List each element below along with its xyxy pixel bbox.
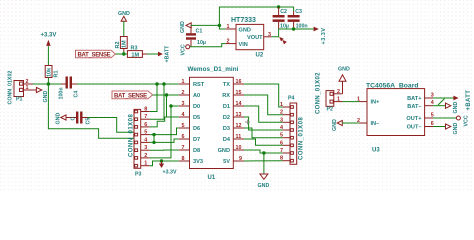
wire P3 pin6 to D5 — [150, 117, 179, 127]
wire P3 pin4 to D7 — [150, 139, 179, 142]
svg-text:9: 9 — [239, 156, 242, 162]
pin 7 P3 — [141, 114, 150, 120]
capacitor C4 — [59, 77, 80, 100]
svg-text:C1: C1 — [196, 29, 203, 35]
node junction P3 pin5 — [152, 133, 155, 136]
pin 1 U1 — [179, 79, 190, 85]
svg-text:CONN_01X08: CONN_01X08 — [299, 116, 305, 160]
svg-text:1: 1 — [144, 161, 147, 167]
svg-text:1: 1 — [337, 97, 340, 103]
wire flag to node — [116, 53, 124, 55]
capacitor C5 — [71, 112, 92, 125]
pin 5 U1 — [179, 123, 190, 129]
svg-text:1: 1 — [182, 79, 185, 85]
svg-text:C: C — [71, 117, 77, 121]
wire node down from P1 net — [48, 84, 134, 138]
svg-text:16: 16 — [236, 79, 242, 85]
node junction RST riser b — [162, 82, 165, 85]
wire R2 to node — [123, 49, 125, 52]
pin 13 U1 — [233, 112, 244, 118]
svg-text:CONN_01X02: CONN_01X02 — [8, 71, 14, 105]
node junction D0 — [169, 104, 172, 107]
node junction under R1 — [47, 82, 50, 85]
node junction GND tap — [262, 151, 265, 154]
pin 2 P4 — [280, 110, 290, 116]
pin 5 P4 — [280, 133, 290, 139]
svg-text:2: 2 — [182, 90, 185, 96]
pin 2 U1 — [179, 90, 190, 96]
wire OUT+ to VCC — [433, 117, 456, 119]
pin 10 U1 — [233, 145, 244, 151]
pin 6 U1 — [179, 134, 190, 140]
svg-text:8: 8 — [280, 156, 283, 162]
svg-text:U1: U1 — [208, 175, 216, 181]
svg-text:U3: U3 — [372, 148, 380, 154]
wire +3.3V to R1 — [47, 46, 49, 65]
ground symbol at OUT- — [446, 123, 459, 135]
wire P3 pin5 to D6 — [150, 128, 179, 135]
svg-text:1: 1 — [227, 24, 230, 30]
svg-text:IN–: IN– — [371, 121, 380, 127]
pin 6 U3 OUT- — [425, 121, 434, 127]
svg-text:2: 2 — [337, 89, 340, 95]
svg-text:Wemos_D1_mini: Wemos_D1_mini — [188, 66, 239, 73]
supply BATT arrow — [147, 45, 170, 63]
node junction P3 pin4 — [152, 141, 155, 144]
ground symbol at C1 — [180, 21, 191, 33]
svg-text:1M: 1M — [122, 40, 128, 48]
wire P2 pin1 to U3 IN+ — [343, 101, 360, 103]
svg-text:3: 3 — [182, 101, 185, 107]
ground symbol at U3 IN- — [332, 119, 343, 131]
svg-text:OUT+: OUT+ — [406, 116, 422, 122]
pin 6 P3 — [141, 122, 150, 128]
wire C2 top to C3 top — [279, 7, 294, 11]
svg-text:10: 10 — [236, 145, 242, 151]
capacitor C2 — [273, 7, 289, 30]
wire R1 to node — [47, 78, 49, 85]
svg-text:R3: R3 — [131, 46, 138, 52]
supply +3.3V (top-left) — [41, 33, 57, 46]
svg-text:C5: C5 — [86, 118, 92, 125]
svg-text:CONN_01X02: CONN_01X02 — [316, 72, 322, 114]
pin 16 U1 — [233, 79, 244, 85]
svg-text:GND: GND — [453, 102, 459, 114]
svg-text:1M: 1M — [131, 53, 139, 59]
pin 1 of P2 — [334, 97, 343, 103]
pin 3 P4 — [280, 117, 290, 123]
svg-text:GND: GND — [332, 119, 338, 131]
ground symbol above R2 — [118, 11, 130, 21]
wire BAT_SENSE to A0 — [153, 94, 179, 96]
svg-text:VCC: VCC — [463, 115, 469, 126]
connector P3 — [129, 109, 142, 177]
svg-text:4: 4 — [182, 112, 185, 118]
wire BAT- to GND — [433, 105, 446, 107]
supply +3.3V arrow (right of rail) — [314, 27, 327, 45]
svg-text:3: 3 — [268, 32, 271, 38]
pin 7 P4 — [280, 148, 290, 154]
svg-text:GND: GND — [43, 91, 49, 103]
svg-text:GND: GND — [258, 183, 270, 189]
svg-text:GND: GND — [180, 21, 186, 33]
wire diagonal BAT- tie — [438, 99, 445, 105]
svg-text:2: 2 — [144, 153, 147, 159]
wire U1 pin12 to P4 pin5 — [244, 128, 283, 138]
svg-text:C2: C2 — [280, 9, 287, 15]
svg-text:D7: D7 — [193, 137, 200, 143]
svg-text:6: 6 — [280, 140, 283, 146]
wire tie pin5-pin4 — [153, 135, 155, 143]
svg-text:7: 7 — [144, 114, 147, 120]
pin 2 of P2 — [334, 89, 343, 95]
pin 14 U1 — [233, 101, 244, 107]
svg-text:HT7333: HT7333 — [231, 17, 256, 24]
svg-text:GND: GND — [56, 113, 62, 125]
charger module U3 TC4056A_Board — [366, 82, 425, 153]
wire P3 pin3 to D8 — [150, 149, 179, 151]
pin 2 P3 — [141, 153, 150, 159]
svg-text:RX: RX — [222, 93, 230, 99]
resistor R1 — [45, 66, 59, 78]
wire A0 riser to D5 net — [166, 95, 168, 117]
pin 1 of U2 — [226, 24, 236, 30]
svg-text:A0: A0 — [193, 93, 200, 99]
pin 4 U1 — [179, 112, 190, 118]
capacitor C3 — [288, 9, 308, 30]
node junction C2 top — [277, 5, 280, 8]
resistor R3 — [124, 46, 147, 59]
svg-text:GND: GND — [338, 67, 350, 73]
svg-text:1: 1 — [280, 102, 283, 108]
pin 4 P4 — [280, 125, 290, 131]
svg-text:VOUT: VOUT — [247, 35, 263, 41]
svg-text:1: 1 — [26, 85, 29, 91]
connector P2 — [316, 72, 334, 114]
wire C5 to P3 — [88, 118, 135, 133]
node junction C3 bottom — [292, 27, 295, 30]
supply VCC at OUT+ — [456, 115, 469, 126]
connector P4 — [288, 96, 305, 165]
wire GND riser — [263, 153, 265, 174]
node junction RST riser a — [155, 82, 158, 85]
svg-text:RST: RST — [193, 82, 205, 88]
svg-text:5: 5 — [144, 130, 147, 136]
resistor R2 — [115, 37, 128, 49]
svg-text:OUT–: OUT– — [407, 125, 422, 131]
svg-text:GND: GND — [239, 27, 251, 33]
pin 2 U3 — [357, 118, 367, 124]
ground symbol at C5 — [56, 113, 77, 125]
svg-text:6: 6 — [144, 122, 147, 128]
svg-text:P1: P1 — [16, 97, 23, 103]
svg-text:P2: P2 — [327, 107, 334, 113]
wire U1 pin15 to P4 pin2 — [244, 95, 283, 115]
pin 2 of U2 — [226, 38, 236, 44]
voltage regulator U2 HT7333 — [231, 17, 264, 59]
svg-text:BAT_SENSE: BAT_SENSE — [78, 53, 111, 59]
svg-text:14: 14 — [236, 101, 242, 107]
wire U1 pin9 to P4 pin8 — [244, 160, 283, 162]
svg-text:5: 5 — [182, 123, 185, 129]
pin 8 P4 — [280, 156, 290, 162]
svg-text:8: 8 — [182, 156, 185, 162]
wire U1 pin11 to P4 pin6 — [244, 139, 283, 145]
svg-text:100n: 100n — [59, 87, 65, 99]
wire P3 pin7 to RST — [150, 84, 164, 119]
pin 5 P3 — [141, 130, 150, 136]
wire OUT- to GND — [433, 126, 446, 128]
svg-text:BAT_SENSE: BAT_SENSE — [114, 93, 147, 99]
svg-text:C3: C3 — [295, 9, 302, 15]
svg-text:10µ: 10µ — [197, 40, 206, 46]
pin 3 P3 — [141, 145, 150, 151]
svg-text:4: 4 — [144, 137, 147, 143]
svg-text:7: 7 — [182, 145, 185, 151]
svg-text:IN+: IN+ — [371, 100, 381, 106]
pin 1 P3 — [141, 161, 150, 167]
connector P1 — [8, 71, 24, 105]
svg-text:3: 3 — [280, 117, 283, 123]
wire rail elbow to U2 pin1 — [219, 25, 225, 29]
ground symbol at P1 pin1 — [33, 87, 49, 102]
wire P3 pin8 to RST — [150, 84, 157, 112]
pin 2 of P1 — [24, 79, 34, 85]
wire rail up and over to C2/C3 tops — [219, 7, 278, 25]
node junction R2/R3 — [122, 52, 125, 55]
node junction 3V3 — [160, 159, 163, 162]
origin cross marker — [245, 120, 250, 125]
svg-text:D5: D5 — [193, 115, 200, 121]
ground symbol at BAT- — [446, 102, 459, 114]
svg-text:+BATT: +BATT — [164, 45, 170, 63]
svg-text:4: 4 — [280, 125, 283, 131]
svg-text:+3.3V: +3.3V — [41, 33, 57, 39]
svg-text:VIN: VIN — [239, 42, 248, 48]
svg-text:TX: TX — [223, 82, 230, 88]
svg-text:3V3: 3V3 — [193, 159, 203, 165]
pin 12 U1 — [233, 123, 244, 129]
svg-text:6: 6 — [182, 134, 185, 140]
pin 1 U3 — [357, 97, 367, 103]
wire 3.3V rail — [279, 28, 314, 30]
wire node to C4 — [48, 83, 61, 85]
wire C1 top rail to U2 GND — [191, 24, 219, 26]
svg-text:1: 1 — [357, 97, 360, 103]
wire U1 pin14 to P4 pin3 — [244, 106, 283, 122]
wire P3 pin2 to D0 — [150, 106, 179, 158]
svg-text:13: 13 — [236, 112, 242, 118]
pin 6 P4 — [280, 140, 290, 146]
wire BAT+ to +BATT — [433, 97, 454, 99]
svg-text:P3: P3 — [135, 172, 142, 178]
wire U1 pin13 to P4 pin4 — [244, 117, 283, 130]
svg-text:D2: D2 — [223, 115, 230, 121]
wire C4 to U1 RST (net at y=84) — [77, 83, 179, 85]
wire GND to U3 IN- — [342, 122, 359, 124]
svg-text:GND: GND — [218, 148, 230, 154]
supply +3.3V below 3V3 pin — [159, 161, 177, 176]
pin 4 P3 — [141, 137, 150, 143]
pin 3 U1 — [179, 101, 190, 107]
svg-text:D8: D8 — [193, 148, 200, 154]
svg-text:GND: GND — [453, 123, 459, 135]
wire GND to R2 — [123, 21, 125, 36]
wire P1 pin2 to node — [33, 83, 48, 85]
wire P3 pin1 to 3V3 — [150, 161, 179, 166]
svg-text:11: 11 — [236, 134, 242, 140]
svg-text:D0: D0 — [193, 104, 200, 110]
svg-text:10k: 10k — [46, 67, 52, 77]
svg-text:C4: C4 — [74, 91, 80, 98]
module U1 Wemos_D1_mini — [188, 66, 239, 181]
pin 8 U1 — [179, 156, 190, 162]
pin 7 U1 — [179, 145, 190, 151]
svg-text:D4: D4 — [223, 137, 231, 143]
ground symbol above P2 — [338, 67, 350, 82]
svg-text:D6: D6 — [193, 126, 200, 132]
pin 3 of U2 VOUT — [264, 32, 272, 38]
ground symbol below P4 — [258, 174, 270, 189]
svg-text:D1: D1 — [223, 104, 230, 110]
svg-text:+3.3V: +3.3V — [321, 27, 327, 44]
node junction A0 — [165, 93, 168, 96]
svg-text:U2: U2 — [256, 53, 264, 59]
supply arrow marker at VOUT corner — [279, 37, 287, 45]
supply VCC at C1 — [181, 44, 190, 55]
pin 5 U3 OUT+ — [425, 113, 434, 119]
svg-text:8: 8 — [144, 107, 147, 113]
svg-text:BAT–: BAT– — [407, 104, 421, 110]
net label BAT_SENSE (upper) — [76, 50, 116, 58]
svg-text:2: 2 — [280, 110, 283, 116]
wire P2 pin2 to GND — [342, 81, 344, 94]
wire U1 pin16 to P4 pin1 — [244, 84, 283, 107]
pin 4 U3 BAT- — [425, 100, 434, 106]
pin 11 U1 — [233, 134, 244, 140]
pin 8 P3 — [141, 107, 150, 113]
svg-text:15: 15 — [236, 90, 242, 96]
supply +BATT arrow — [453, 90, 472, 111]
pin 15 U1 — [233, 90, 244, 96]
svg-text:+BATT: +BATT — [466, 90, 472, 111]
svg-text:5: 5 — [280, 133, 283, 139]
svg-text:+3.3V: +3.3V — [163, 170, 177, 176]
svg-text:BAT+: BAT+ — [407, 96, 422, 102]
svg-text:R2: R2 — [115, 41, 121, 48]
wire U1 pin10 to P4 pin7 — [244, 150, 283, 153]
net label BAT_SENSE (lower) — [112, 91, 153, 99]
capacitor C1 (vertical) — [186, 25, 206, 46]
pin 1 of P1 — [24, 85, 34, 91]
wire VOUT up to 3.3V rail — [272, 29, 279, 37]
svg-text:VCC: VCC — [181, 44, 187, 55]
svg-text:P4: P4 — [288, 96, 295, 102]
svg-text:7: 7 — [280, 148, 283, 154]
node junction C1 rail — [218, 24, 221, 27]
pin 3 U3 BAT+ — [425, 93, 434, 99]
svg-text:3: 3 — [144, 145, 147, 151]
svg-text:12: 12 — [236, 123, 242, 129]
svg-text:D3: D3 — [223, 126, 230, 132]
wire VCC to U2 VIN — [190, 44, 226, 47]
svg-text:R1: R1 — [54, 70, 60, 77]
pin 1 P4 — [280, 102, 290, 108]
svg-text:2: 2 — [227, 38, 230, 44]
svg-text:5V: 5V — [223, 159, 230, 165]
pin 9 U1 — [233, 156, 244, 162]
